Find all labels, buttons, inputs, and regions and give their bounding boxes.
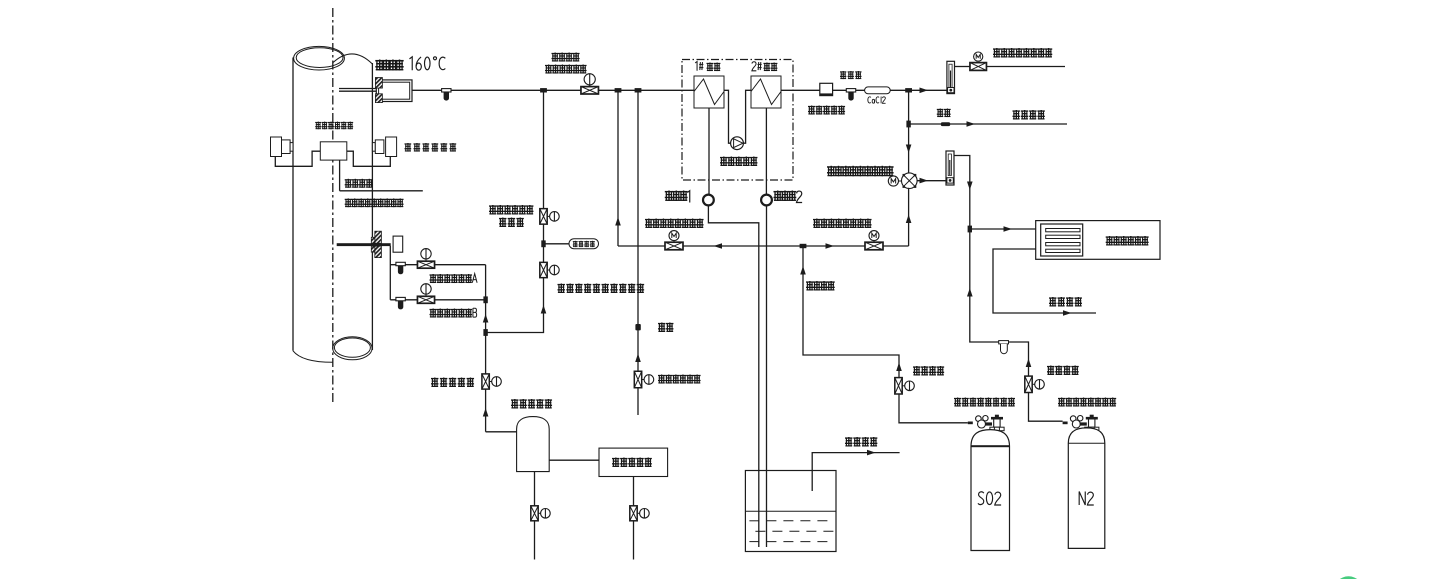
actuator 氮气阀门 <box>1035 380 1045 390</box>
junction tee zero-air <box>635 88 642 92</box>
stack bottom ellipse inner <box>334 338 370 357</box>
flow arrow to analyzer <box>1004 226 1013 232</box>
humidity sensor base <box>820 93 833 95</box>
label 1# <box>695 61 703 70</box>
analyzer slat 1 <box>1046 229 1080 232</box>
actuator valve B <box>421 284 431 294</box>
gas restrictor 气阻 (air) <box>635 324 640 330</box>
actuator separator drain <box>541 509 551 519</box>
stack bottom front arc <box>293 351 333 363</box>
label 标气阀门 <box>913 366 944 376</box>
pipe switch valve to rotameter2 <box>917 180 946 182</box>
flow arrow left cal gas <box>714 243 723 249</box>
analyzer slat 2 <box>1046 235 1080 238</box>
valve stem <box>425 259 427 261</box>
rotameter 2 float bar <box>949 160 950 175</box>
flow arrow main <box>920 88 929 94</box>
valve compressor drain <box>630 506 637 521</box>
label 空气进气阀门 <box>658 375 701 384</box>
3-way switching valve <box>902 173 918 189</box>
valve link <box>489 381 491 383</box>
flow arrow up cal gas <box>615 217 621 226</box>
rotameter 1 bottom box <box>948 88 954 93</box>
motor link <box>899 180 902 182</box>
actuator 反吹气阀门 <box>492 377 502 387</box>
dust monitor right bracket <box>347 151 391 166</box>
valve link <box>642 379 644 381</box>
label 烟气采样阀门 <box>545 65 587 74</box>
valve 标气系统进气阀门 <box>665 242 683 250</box>
valve link <box>547 269 549 271</box>
valve separator drain <box>531 506 538 521</box>
label 纸滤芯 <box>840 71 862 79</box>
stack top ellipse outer <box>294 46 345 70</box>
rotameter 2 tube <box>948 154 951 176</box>
pipe to filter <box>833 89 865 91</box>
dust monitor left mid box <box>282 140 291 154</box>
pipe rotameter2 out <box>954 156 970 230</box>
label 流速反吹阀门(B) <box>430 309 473 318</box>
flow arrow up N2 <box>967 288 973 297</box>
arrow up to separator valve <box>483 408 489 417</box>
label 烟尘计算单元 <box>315 122 353 130</box>
label 制冷 (2) <box>764 63 778 72</box>
backflush riser <box>486 90 544 332</box>
CaCl2 drier capsule <box>865 87 891 94</box>
cal gas supply line <box>803 246 899 378</box>
N2 pressure regulator 氮气压气调节阀门 <box>1063 415 1099 431</box>
dust unit signal drop <box>339 160 341 191</box>
label 人工对比采样阀门 <box>993 48 1052 58</box>
label 流速反吹阀门(A) <box>430 274 473 283</box>
dust computing unit box <box>320 142 347 160</box>
analyzer outer box <box>1036 221 1160 260</box>
rotameter 1 float bar <box>950 71 951 88</box>
label 标气、样气切换阀门 <box>827 166 894 176</box>
valve 烟气采样阀门 <box>581 87 599 94</box>
dust signal line <box>340 190 423 192</box>
probe wall hatch upper <box>375 78 382 89</box>
junction analyzer tee <box>968 226 972 233</box>
label 蠕动泵(1) <box>665 191 688 201</box>
separator outlet <box>549 459 599 461</box>
stack bottom ellipse outer <box>333 337 372 360</box>
label 蠕动泵(2) <box>774 191 797 201</box>
actuator 电动阀 <box>550 212 560 222</box>
heated line fitting <box>442 89 451 101</box>
valve 标气阀门 <box>895 378 902 394</box>
junction cal gas tee <box>800 244 807 248</box>
pipe to tee <box>890 89 947 91</box>
motor switching valve <box>888 176 898 186</box>
flow arrow up to 标气阀门 <box>896 363 902 372</box>
actuator 标气阀门 <box>905 381 915 391</box>
vent branch line <box>908 90 910 173</box>
pump2 drain <box>766 206 768 548</box>
SO2 pressure regulator 标气压气调节阀门 <box>968 415 1004 431</box>
separator drain <box>534 472 536 506</box>
gas restrictor 气阻 <box>941 122 950 126</box>
label 空气压缩机 <box>612 458 652 468</box>
label 2# <box>752 62 762 71</box>
label 标气压气调节阀门 <box>954 398 1015 407</box>
line A fitting <box>396 262 405 274</box>
label 烟气反吹阀门 <box>489 205 533 215</box>
separator drain out <box>534 521 536 560</box>
label 标气仪表进气阀门 <box>813 219 872 229</box>
label 烟气反吹气罐充气阀门 <box>558 284 645 294</box>
stack top ellipse inner <box>296 48 343 68</box>
label 采样探头 <box>375 60 403 71</box>
label 烟尘采样镜头 <box>405 143 457 152</box>
flow arrow to rotameter2 <box>920 178 929 184</box>
rotameter 2 body <box>946 151 954 185</box>
valve 氮气阀门 <box>1025 376 1032 392</box>
valve 反吹气阀门 <box>482 374 489 389</box>
dust monitor right outer box <box>386 137 397 157</box>
stack centerline (dash-dot) <box>332 8 334 404</box>
pitot line A <box>390 264 485 266</box>
analyzer vent arrow <box>1063 310 1072 316</box>
cooler 2 zigzag <box>751 79 781 105</box>
label 气阻 (top) <box>937 109 951 118</box>
rotameter 1 body <box>947 61 955 93</box>
analyzer inner box <box>1041 224 1083 256</box>
label 烟尘排放、烟尘故障 <box>345 198 404 207</box>
pipe rotameter1 out <box>954 66 970 68</box>
label 制冷 (1) <box>707 63 721 72</box>
label 氮气阀门 <box>1047 366 1079 376</box>
water level line <box>745 510 836 512</box>
motor 标气仪表进气阀门 <box>869 231 879 241</box>
label 标气进气 <box>806 281 835 291</box>
label B <box>473 308 477 317</box>
label SO2 <box>978 492 1001 505</box>
valve 流速反吹阀门A <box>417 261 434 268</box>
probe tube upper line <box>339 88 376 90</box>
label 烟气采样泵 <box>720 157 757 167</box>
N2 riser and feed <box>970 229 1029 376</box>
peristaltic pump 2 <box>761 195 772 206</box>
tank vent pipe <box>812 453 899 491</box>
label 烟尘浓度 <box>345 179 373 188</box>
valve stem <box>425 294 427 296</box>
valve link <box>538 512 540 514</box>
stack right wall <box>371 63 373 350</box>
dust monitor left stub <box>290 143 293 152</box>
rotameter 1 tube <box>949 64 952 87</box>
dust monitor right stub <box>372 143 375 152</box>
valve stem <box>673 241 675 243</box>
N2 cylinder <box>1068 428 1105 549</box>
pitot junction box <box>393 236 403 252</box>
dust monitor right mid box <box>375 140 384 154</box>
paper filter element <box>846 89 855 101</box>
label 湿度传感器 <box>808 106 845 115</box>
junction backflush tee <box>483 329 487 336</box>
label A <box>472 274 477 283</box>
analyzer vent line <box>993 249 1096 313</box>
water seal tank <box>745 471 836 552</box>
pitot wall hatch lower-left <box>371 246 375 252</box>
compressor drain out <box>633 521 635 560</box>
probe body inner <box>379 82 410 99</box>
label 氮气压气调节阀门 <box>1058 398 1116 407</box>
flow arrow up to switch valve <box>906 215 912 224</box>
cooler 2 box <box>751 76 781 108</box>
line B fitting <box>396 297 405 309</box>
label 气阻 (air) <box>658 323 673 333</box>
label CaCl2 <box>868 97 886 104</box>
label 电动阀 <box>499 218 524 228</box>
junction tee vent <box>905 88 912 92</box>
cooler1 drain <box>708 108 710 194</box>
tank vent arrow <box>867 450 876 456</box>
arrow up line AB <box>483 314 489 323</box>
label 烟气分析仪表 <box>1106 236 1149 246</box>
label N2 <box>1079 492 1094 506</box>
moisture trap <box>999 341 1009 354</box>
label 排放大气 (analyzer) <box>1049 297 1082 307</box>
gas-water separator 气水分离器 <box>517 417 550 472</box>
actuator valve A <box>421 249 431 259</box>
analyzer slat 4 <box>1046 249 1080 252</box>
rotameter 2 bottom box <box>947 178 953 183</box>
pipe to analyzer <box>970 228 1036 230</box>
junction tee backflush <box>540 88 547 92</box>
label 标气系统进气阀门 <box>645 219 704 229</box>
junction tee cal-gas <box>615 88 622 92</box>
dust monitor left outer box <box>271 137 282 157</box>
label 排放大气 (top) <box>1013 110 1045 120</box>
cooler enclosure dash-dot box <box>682 60 793 181</box>
air source capsule 空气气源 <box>569 239 599 249</box>
pitot probe thick line <box>337 243 391 246</box>
stack top dome arc <box>333 54 373 64</box>
air flow arrow up <box>635 354 641 363</box>
label 反吹气阀门 <box>431 378 474 388</box>
valve 人工对比采样阀门 <box>970 63 987 71</box>
main sample line <box>412 89 694 91</box>
pitot drop line <box>389 246 391 300</box>
water dashes row 3 <box>749 541 834 543</box>
pipe to N2 regulator <box>1029 393 1063 422</box>
pump1 drain <box>708 206 758 548</box>
sampling pump triangle <box>734 139 743 148</box>
backflush arrow up <box>541 305 547 314</box>
valve 标气仪表进气阀门 <box>865 242 883 250</box>
zero air line <box>637 90 639 415</box>
pipe manual sample out <box>987 66 1066 68</box>
valve link <box>637 512 639 514</box>
motor 人工对比采样阀门 <box>974 52 983 61</box>
actuator 充气阀门 <box>550 265 560 275</box>
pipe cooler1 to pump <box>724 90 731 143</box>
analyzer slat 3 <box>1046 243 1080 246</box>
valve stem <box>589 85 591 87</box>
junction vent tee <box>906 121 910 128</box>
junction line B tee <box>483 296 487 303</box>
actuator 空气进气阀门 <box>644 375 654 385</box>
flow arrow up supply <box>800 266 806 275</box>
flow arrow up 氮气阀门 <box>1026 359 1032 368</box>
probe tube lower line <box>339 90 376 92</box>
actuator compressor drain <box>640 509 650 519</box>
pitot line B <box>390 299 485 301</box>
SO2 cylinder <box>971 430 1010 551</box>
label 气水分离器 <box>511 399 552 409</box>
peristaltic pump 1 <box>703 195 714 206</box>
label 空气气源 <box>573 241 595 247</box>
cal gas riser <box>617 90 619 246</box>
stack left wall <box>292 58 294 351</box>
dust monitor left bracket <box>275 151 320 166</box>
valve link <box>1032 383 1034 385</box>
vent line 排放大气 <box>909 123 1067 125</box>
valve 烟气反吹阀门(电动阀) <box>540 209 547 225</box>
label 排放大气 (tank) <box>845 437 877 447</box>
probe body outer <box>376 80 412 102</box>
separator inlet <box>486 431 517 433</box>
label digit 2 <box>796 191 802 202</box>
pitot wall hatch upper-left <box>371 237 375 243</box>
compressor drain <box>633 477 635 506</box>
water dashes row 1 <box>749 520 834 522</box>
valve link <box>547 215 549 217</box>
cooler 1 zigzag <box>694 79 724 105</box>
pipe switch valve down <box>908 188 910 246</box>
flow arrow down to switch valve <box>906 145 912 154</box>
pneumatic actuator <box>584 74 595 85</box>
valve 烟气反吹气罐充气阀门 <box>540 262 547 277</box>
sampling pump circle <box>731 137 744 150</box>
valve 空气进气阀门 <box>634 371 641 388</box>
motor 标气系统进气阀门 <box>669 231 679 241</box>
label digit 1 <box>687 191 689 203</box>
pipe pump to cooler2 <box>743 90 751 143</box>
air source stub <box>544 243 570 245</box>
label 气动球阀 <box>552 53 580 62</box>
valve stem <box>873 241 875 243</box>
cooler 1 box <box>694 76 724 108</box>
vent flow arrow <box>967 121 976 127</box>
valve 流速反吹阀门B <box>417 296 434 303</box>
pipe to SO2 regulator <box>899 394 968 423</box>
pipe cooler2 out <box>781 89 820 91</box>
probe wall hatch lower <box>375 94 382 103</box>
backflush down line <box>485 265 487 432</box>
humidity sensor box <box>820 83 833 95</box>
valve link <box>902 385 904 387</box>
pitot wall hatch lower <box>375 246 382 257</box>
water dashes row 2 <box>755 530 834 532</box>
green watermark circle <box>1333 576 1363 579</box>
label 160C <box>409 57 445 71</box>
flow arrow right cal gas <box>826 243 835 249</box>
pitot wall hatch upper <box>375 231 382 243</box>
cooler2 drain <box>765 108 767 194</box>
flow arrow down rotameter2 <box>967 182 973 191</box>
cal gas line <box>618 245 909 247</box>
air compressor box 空气压缩机 <box>599 448 668 476</box>
junction air source tee <box>541 240 545 247</box>
